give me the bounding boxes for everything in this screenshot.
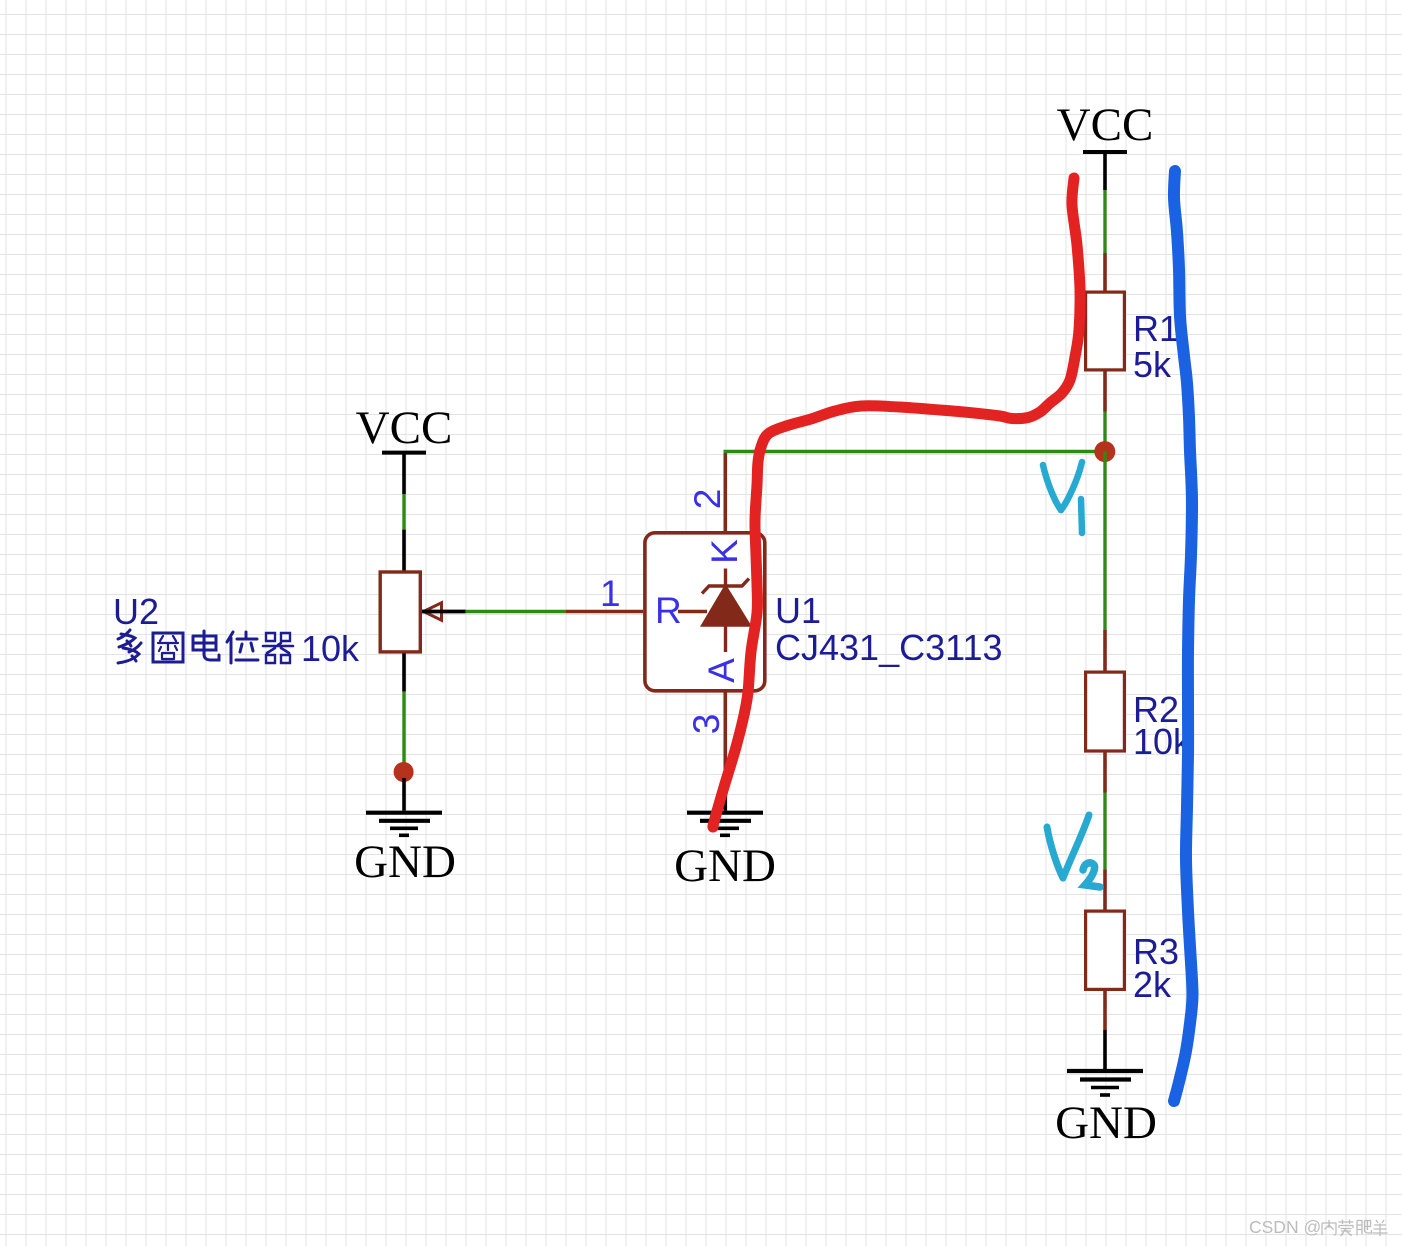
potentiometer U2 top pin bbox=[402, 530, 406, 571]
R3 bottom pin bbox=[1103, 991, 1107, 1030]
svg-text:K: K bbox=[704, 539, 745, 564]
wire R2 to R3 (node V2) bbox=[1103, 793, 1106, 870]
node V1 annotation (cyan handwriting) bbox=[1043, 462, 1082, 533]
U1 pin 2 (K) bbox=[723, 452, 727, 533]
svg-text:3: 3 bbox=[686, 714, 727, 735]
svg-text:GND: GND bbox=[354, 836, 456, 888]
ground symbol (middle) bbox=[687, 772, 763, 835]
svg-text:1: 1 bbox=[600, 573, 621, 614]
svg-text:GND: GND bbox=[674, 840, 776, 892]
位 bbox=[227, 632, 258, 663]
red marker curve bbox=[713, 178, 1080, 827]
svg-text:2: 2 bbox=[687, 489, 728, 510]
wire VCC to U2 pin 1 bbox=[402, 494, 405, 530]
wire R3 to GND (right) bbox=[1103, 1030, 1107, 1069]
CSDN watermark bbox=[1249, 1217, 1321, 1237]
ground symbol (right) bbox=[1067, 1071, 1143, 1095]
watermark 内蒙肥羊 (drawn strokes) bbox=[1322, 1220, 1388, 1237]
svg-text:U2: U2 bbox=[113, 591, 159, 632]
R1 bottom pin bbox=[1103, 372, 1107, 412]
wiper arrow of U2 bbox=[424, 603, 442, 620]
wire VCC to R1 bbox=[1103, 190, 1106, 253]
U1 pin 3 (A) bbox=[723, 691, 727, 772]
svg-text:VCC: VCC bbox=[356, 402, 453, 454]
svg-text:R: R bbox=[655, 590, 682, 631]
op-amp U1 body box bbox=[645, 533, 765, 691]
resistor R2 top pin bbox=[1103, 630, 1107, 671]
potentiometer U2 body bbox=[380, 572, 465, 652]
resistor R3 body bbox=[1086, 911, 1125, 989]
junction dot (left GND node) bbox=[394, 762, 414, 782]
svg-text:CSDN @: CSDN @ bbox=[1249, 1217, 1321, 1237]
svg-text:CJ431_C3113: CJ431_C3113 bbox=[775, 627, 1003, 668]
svg-text:U1: U1 bbox=[775, 590, 821, 631]
VCC power symbol (right) bbox=[1057, 99, 1154, 190]
VCC power symbol (left) bbox=[356, 402, 453, 494]
resistor R1 top pin bbox=[1103, 253, 1107, 291]
ground symbol (left) bbox=[366, 778, 442, 835]
wire U2 wiper to U1 pin 1 bbox=[466, 610, 566, 613]
value 多圈电位器10k (drawn hanzi strokes + 10k) bbox=[118, 630, 293, 663]
svg-text:VCC: VCC bbox=[1057, 99, 1154, 151]
内 bbox=[1322, 1220, 1336, 1235]
R2 bottom pin bbox=[1103, 753, 1107, 793]
svg-text:GND: GND bbox=[1055, 1097, 1157, 1149]
多 bbox=[118, 630, 141, 663]
wire R1 to node V1 bbox=[1103, 412, 1106, 452]
肥 bbox=[1357, 1221, 1372, 1236]
wire node V1 to U1 pin 2 bbox=[724, 450, 1106, 454]
U1 internal zener diode symbol bbox=[678, 569, 749, 653]
resistor R3 top pin bbox=[1103, 870, 1107, 911]
羊 bbox=[1373, 1220, 1388, 1236]
圈 bbox=[153, 633, 183, 662]
wire U2 to GND (left) bbox=[402, 692, 405, 765]
wire node V1 to R2 bbox=[1103, 452, 1106, 631]
blue marker curve bbox=[1174, 171, 1193, 1101]
svg-text:A: A bbox=[701, 658, 742, 683]
电 bbox=[193, 631, 219, 660]
蒙 bbox=[1339, 1220, 1354, 1237]
U2 bottom pin bbox=[402, 654, 406, 692]
U1 pin 1 (R) bbox=[566, 610, 643, 613]
node V2 annotation (cyan handwriting) bbox=[1047, 815, 1100, 887]
svg-text:10k: 10k bbox=[301, 628, 360, 669]
svg-text:5k: 5k bbox=[1133, 344, 1172, 385]
svg-text:2k: 2k bbox=[1133, 964, 1172, 1005]
resistor R1 body bbox=[1086, 292, 1125, 370]
svg-text:R1: R1 bbox=[1133, 308, 1179, 349]
resistor R2 body bbox=[1086, 672, 1125, 751]
junction dot node V1 bbox=[1094, 441, 1115, 462]
器 bbox=[263, 633, 293, 663]
